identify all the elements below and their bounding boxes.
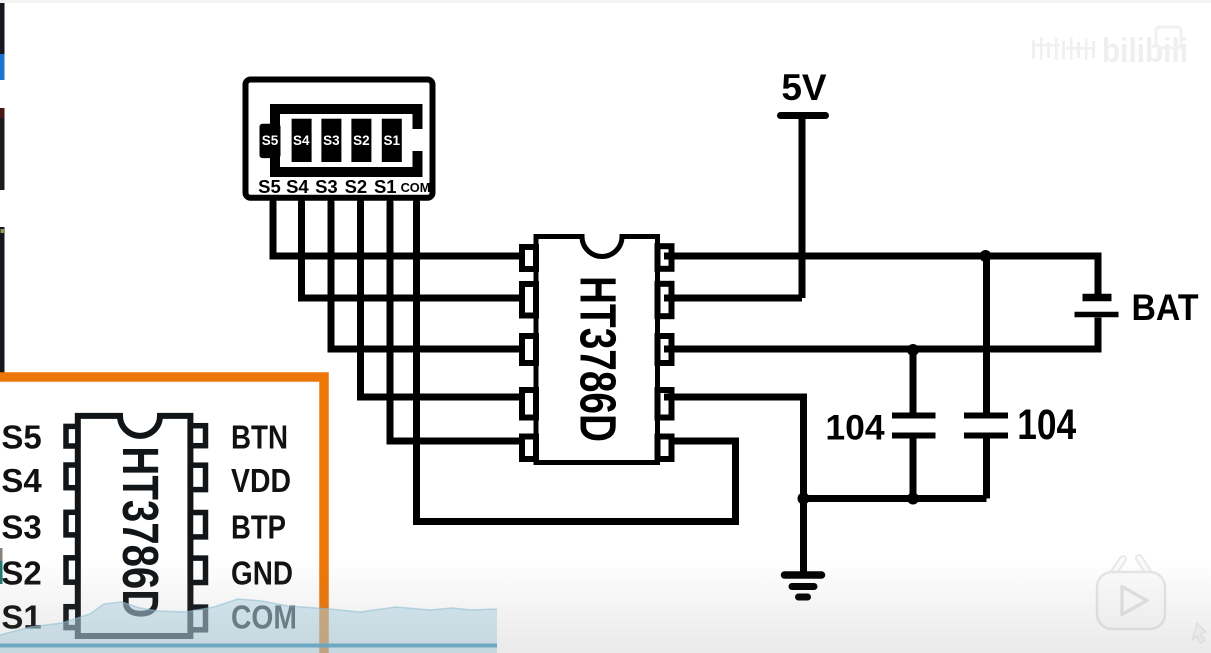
wire S4 to U1	[302, 202, 530, 298]
display pin labels S5 S4 S3 S2 S1 COM	[258, 176, 430, 197]
U1 pin VDD	[658, 284, 672, 316]
svg-text:COM: COM	[401, 180, 431, 195]
svg-text:BTP: BTP	[231, 509, 286, 546]
svg-text:S5: S5	[1, 419, 41, 456]
U1 pin S4	[522, 284, 536, 316]
U1 pin S2	[522, 390, 536, 418]
U2 pin VDD	[191, 465, 206, 489]
svg-text:VDD: VDD	[231, 462, 291, 499]
U1 pin BTN	[658, 246, 672, 269]
svg-text:104: 104	[1017, 402, 1076, 449]
svg-text:S3: S3	[1, 509, 41, 546]
U2 pin S5	[66, 426, 78, 446]
svg-text:S4: S4	[286, 176, 309, 197]
wire U1 BTP to BAT minus	[664, 318, 1098, 350]
node junction on BTP wire	[907, 344, 919, 356]
svg-text:bilibili: bilibili	[1102, 32, 1188, 70]
svg-text:104: 104	[825, 408, 884, 448]
capacitor C1 104	[892, 350, 936, 499]
node junction ground rail mid	[907, 493, 919, 505]
svg-text:S1: S1	[374, 176, 397, 197]
wire S3 to U1	[331, 202, 529, 349]
segment S5	[260, 124, 281, 158]
U1 pin BTP	[658, 336, 672, 363]
segment S3	[321, 119, 341, 162]
wire S5 to U1	[273, 202, 529, 256]
U2 pin S4	[66, 465, 78, 488]
ground symbol	[785, 575, 822, 597]
U2 pin S3	[66, 512, 78, 535]
capacitor C2 104	[964, 256, 1008, 499]
U1 pin S3	[522, 336, 536, 363]
segment S4	[292, 119, 312, 162]
svg-text:5V: 5V	[781, 67, 827, 108]
U2 pin BTN	[191, 426, 206, 446]
battery display module DS1 outline	[246, 80, 433, 198]
IC U1 HT3786D body	[536, 237, 658, 463]
U2 pin BTP	[191, 513, 206, 537]
svg-text:HT3786D: HT3786D	[570, 276, 627, 442]
wire U1 VDD to 5V	[664, 295, 802, 302]
wire S1 to U1	[390, 202, 529, 441]
svg-text:S4: S4	[1, 462, 42, 499]
svg-text:S4: S4	[293, 133, 310, 148]
svg-text:S2: S2	[345, 176, 368, 197]
battery icon frame	[270, 104, 425, 177]
svg-text:S5: S5	[262, 133, 279, 148]
U2 pin S2	[66, 558, 78, 582]
U2 pin COM	[191, 607, 206, 630]
wire COM loop to U1 COM pin	[417, 202, 736, 522]
svg-text:S3: S3	[315, 176, 338, 197]
segment S2	[351, 119, 371, 162]
node junction on BTN wire	[980, 250, 992, 262]
wire U1 BTN to BAT plus	[664, 256, 1098, 294]
svg-text:S3: S3	[323, 133, 340, 148]
wire ground rail	[804, 495, 987, 502]
node junction ground rail left	[798, 493, 810, 505]
svg-text:BTN: BTN	[231, 419, 288, 456]
segment S1	[382, 119, 402, 162]
U1 pin GND	[658, 390, 672, 418]
svg-text:S1: S1	[384, 133, 401, 148]
U1 pin S1	[522, 437, 536, 460]
U2 pin GND	[191, 558, 206, 582]
wire U1 GND to ground	[664, 397, 804, 573]
battery BAT	[1075, 298, 1119, 315]
5V supply symbol	[781, 67, 827, 298]
U1 pin COM	[658, 437, 672, 460]
U1 pin S5	[522, 247, 536, 269]
svg-text:S5: S5	[258, 176, 281, 197]
svg-text:S2: S2	[353, 133, 370, 148]
svg-text:BAT: BAT	[1132, 287, 1199, 328]
U2 pin S1	[66, 607, 78, 628]
wire S2 to U1	[361, 202, 530, 397]
IC U2 pinout HT3786D body	[78, 416, 191, 636]
